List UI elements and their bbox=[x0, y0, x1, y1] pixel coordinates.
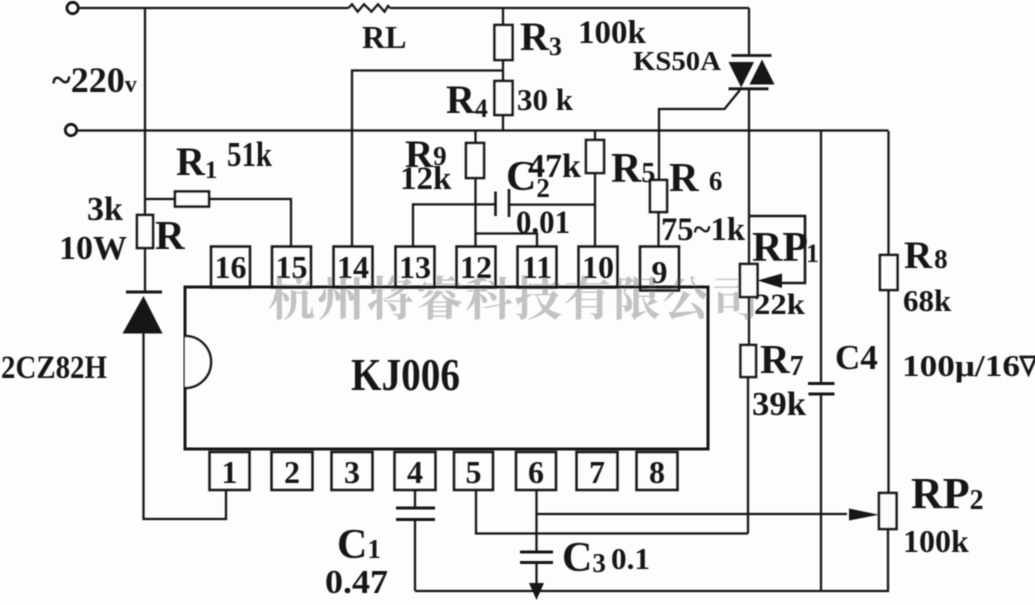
resistor R5 bbox=[586, 140, 604, 173]
watermark bbox=[269, 275, 756, 320]
pin 15 bbox=[272, 247, 311, 288]
wire ground rail bottom bbox=[415, 529, 888, 591]
svg-text:13: 13 bbox=[399, 249, 431, 285]
pin 11 bbox=[518, 247, 557, 288]
svg-text:100μ/16: 100μ/16 bbox=[902, 348, 1020, 383]
wire triac to RP1 bbox=[748, 89, 750, 264]
svg-text:15: 15 bbox=[276, 249, 308, 285]
RP1 wiper arrow bbox=[758, 274, 783, 289]
wire junction to pin 14 bbox=[352, 71, 503, 247]
svg-text:10W: 10W bbox=[59, 230, 127, 267]
pin 9 bbox=[640, 247, 679, 291]
svg-text:3: 3 bbox=[344, 454, 360, 490]
svg-text:KS50A: KS50A bbox=[633, 46, 722, 76]
nabla V glyph bbox=[1021, 357, 1035, 374]
wire C3 bottom bbox=[535, 563, 537, 585]
potentiometer RP1 body bbox=[740, 264, 758, 297]
svg-text:12: 12 bbox=[460, 249, 492, 285]
wire pin 6 to RP2 wiper bbox=[537, 513, 848, 515]
RP1 wiper frame bbox=[749, 216, 805, 283]
svg-text:3k: 3k bbox=[87, 191, 123, 228]
wire R6 to pin 9 bbox=[657, 212, 659, 247]
svg-text:1: 1 bbox=[222, 454, 238, 490]
pin 1 bbox=[210, 452, 250, 490]
svg-text:39k: 39k bbox=[752, 386, 806, 423]
diode 2CZ82H bbox=[123, 292, 163, 334]
terminal top-left bbox=[67, 2, 78, 13]
svg-text:30 k: 30 k bbox=[517, 82, 574, 117]
wire top rail right bbox=[390, 7, 749, 9]
wire mains rail 2 bbox=[77, 129, 889, 131]
svg-text:RP: RP bbox=[752, 225, 808, 271]
svg-text:12k: 12k bbox=[400, 161, 452, 197]
svg-text:R: R bbox=[155, 212, 185, 258]
svg-text:6: 6 bbox=[528, 454, 544, 490]
wire left vertical bbox=[144, 8, 146, 215]
wire R5 top stub bbox=[594, 131, 596, 140]
svg-text:11: 11 bbox=[522, 249, 552, 285]
svg-text:14: 14 bbox=[337, 249, 369, 285]
pin number labels bottom bbox=[222, 454, 666, 490]
wire C4 bottom bbox=[820, 394, 822, 591]
pin 6 bbox=[516, 452, 556, 490]
svg-text:75~1k: 75~1k bbox=[661, 212, 746, 248]
resistor R1 bbox=[175, 192, 209, 207]
pin 12 bbox=[457, 247, 496, 288]
pin number labels top bbox=[215, 249, 668, 290]
svg-text:RL: RL bbox=[362, 19, 406, 55]
svg-text:~220v: ~220v bbox=[52, 60, 137, 100]
svg-text:C4: C4 bbox=[835, 338, 878, 377]
C3 ground arrow bbox=[529, 583, 544, 600]
resistor R9 bbox=[466, 143, 484, 178]
IC U1 KJ006 box bbox=[185, 287, 708, 449]
wire R8 to RP2 bbox=[887, 290, 889, 493]
svg-text:7: 7 bbox=[589, 454, 605, 490]
wire R bottom to diode bbox=[144, 248, 146, 292]
pin 14 bbox=[334, 247, 373, 288]
wire branch to pin 11 bbox=[476, 234, 538, 247]
pin 2 bbox=[272, 452, 313, 490]
svg-text:9: 9 bbox=[652, 254, 668, 290]
resistor R4 bbox=[495, 81, 513, 115]
svg-text:100k: 100k bbox=[903, 523, 969, 559]
wire C1 to ground rail bbox=[414, 520, 416, 592]
wire diode to pin 1 bbox=[144, 333, 227, 519]
svg-text:2: 2 bbox=[284, 454, 300, 490]
pin 13 bbox=[396, 247, 435, 288]
wire R3 top stub bbox=[502, 8, 504, 25]
potentiometer RP2 body bbox=[879, 493, 897, 529]
wire R9 top stub bbox=[474, 131, 476, 143]
svg-text:1: 1 bbox=[806, 239, 819, 268]
wire pin 5 run bbox=[476, 490, 748, 534]
wire R8 top bbox=[887, 131, 889, 255]
wire R3-R4 junction bbox=[502, 60, 504, 81]
wire R7 bottom bbox=[747, 377, 749, 534]
pin 4 bbox=[395, 452, 436, 490]
svg-text:68k: 68k bbox=[903, 283, 952, 318]
resistor R 3k bbox=[137, 215, 153, 248]
svg-text:51k: 51k bbox=[227, 135, 272, 174]
svg-text:10: 10 bbox=[582, 249, 614, 285]
triac KS50A bbox=[729, 56, 775, 89]
wire pin 4 to C1 bbox=[414, 490, 416, 508]
svg-text:8: 8 bbox=[649, 454, 665, 490]
svg-text:KJ006: KJ006 bbox=[351, 349, 460, 400]
capacitor C3 plates bbox=[520, 552, 553, 563]
capacitor C2 plates bbox=[496, 189, 510, 217]
svg-text:4: 4 bbox=[407, 454, 423, 490]
capacitor C1 plates bbox=[396, 508, 435, 520]
wire triac top bbox=[748, 8, 750, 55]
wire C4 top bbox=[820, 131, 822, 384]
wire R5 to pin 10 bbox=[594, 173, 596, 247]
svg-text:0.01: 0.01 bbox=[516, 205, 570, 241]
wire RP1 to R7 bbox=[748, 297, 750, 345]
resistor R6 bbox=[650, 180, 667, 212]
svg-text:47k: 47k bbox=[528, 148, 581, 185]
pin 8 bbox=[637, 452, 678, 490]
svg-text:5: 5 bbox=[466, 454, 482, 490]
svg-text:0.47: 0.47 bbox=[325, 564, 388, 601]
wire C2 right to R5 line bbox=[509, 203, 595, 205]
wire R1 left bbox=[145, 198, 175, 200]
resistor RL zigzag bbox=[349, 4, 391, 11]
terminal bottom-left bbox=[65, 124, 76, 135]
IC notch bbox=[185, 336, 211, 388]
svg-text:0.1: 0.1 bbox=[611, 541, 650, 576]
wire R1 to pin 15 bbox=[209, 199, 291, 247]
RP2 wiper arrow bbox=[849, 509, 879, 521]
svg-text:2CZ82H: 2CZ82H bbox=[1, 350, 107, 386]
resistor R7 bbox=[741, 345, 757, 377]
resistor R8 bbox=[880, 255, 898, 290]
svg-text:22k: 22k bbox=[754, 288, 805, 321]
pin 5 bbox=[454, 452, 493, 490]
wire pin 6 down bbox=[535, 490, 537, 552]
wire C2 left to pin 13 bbox=[413, 204, 496, 246]
svg-text:16: 16 bbox=[215, 249, 247, 285]
pin 16 bbox=[211, 247, 250, 288]
wire top rail left bbox=[79, 7, 349, 9]
wire R9 to pin 12 bbox=[474, 178, 476, 247]
resistor R3 bbox=[495, 25, 513, 60]
pin 10 bbox=[579, 247, 618, 288]
wire R4 bottom bbox=[502, 115, 504, 131]
pin 3 bbox=[332, 452, 373, 490]
pin 7 bbox=[577, 452, 618, 490]
capacitor C4 plates bbox=[808, 384, 835, 395]
wire triac gate to R6 bbox=[659, 90, 740, 180]
